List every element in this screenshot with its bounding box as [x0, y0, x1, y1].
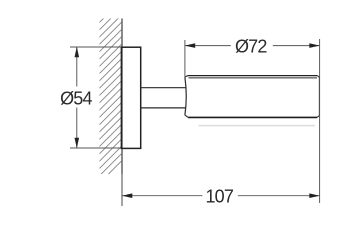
holder bottom chamfer left [185, 115, 188, 118]
arrow Ø72 right [309, 43, 320, 48]
dimension line 107 left segment [122, 195, 202, 197]
extension line top of plate (Ø54) [70, 46, 122, 48]
holder top inner line [189, 77, 318, 79]
extension line bottom of plate (Ø54) [70, 147, 122, 149]
dimension line Ø72 left segment [185, 45, 230, 47]
arrow Ø54 up [75, 47, 80, 58]
svg-text:Ø54: Ø54 [60, 88, 92, 108]
svg-text:107: 107 [205, 186, 233, 206]
arm bottom line [141, 107, 186, 109]
arrow Ø54 down [75, 138, 80, 149]
wall plate [121, 47, 140, 148]
holder bottom outer line [188, 116, 317, 118]
arrow Ø72 left [185, 43, 196, 48]
extension line wall face to 107 dimension [121, 174, 123, 206]
wall face line [121, 19, 123, 175]
holder left face arc [185, 77, 186, 115]
holder right face [318, 77, 320, 116]
dimension line Ø54 lower segment [76, 108, 78, 148]
arrow 107 right [309, 193, 320, 198]
dimension line Ø54 upper segment [76, 48, 78, 87]
dimension line 107 right segment [238, 195, 319, 197]
extension line Ø72/107 right [319, 39, 321, 203]
extension line Ø72 left [184, 40, 186, 77]
svg-text:Ø72: Ø72 [235, 37, 267, 57]
holder top chamfer right [317, 76, 319, 78]
holder top chamfer left [185, 76, 188, 78]
wall hatching [70, 0, 130, 213]
dimension line Ø72 right segment [273, 45, 319, 47]
arrow 107 left [122, 193, 133, 198]
holder bottom chamfer right [317, 116, 319, 118]
arm top line [141, 87, 186, 89]
holder shadow line below [199, 125, 316, 127]
holder top outer line [188, 75, 318, 77]
